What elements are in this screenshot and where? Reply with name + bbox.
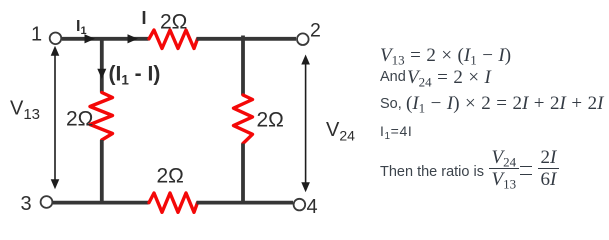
current arrow I1 — [85, 34, 96, 43]
V24 measurement arrow — [301, 55, 310, 193]
resistor R4 2ohm bottom — [149, 193, 198, 212]
equation line 2: And V24 = 2 x I — [380, 69, 406, 86]
wire right branch lower — [241, 144, 245, 203]
terminal 2 — [297, 33, 309, 45]
svg-text:3: 3 — [21, 193, 32, 215]
svg-text:V13: V13 — [10, 98, 40, 124]
svg-text:(I1 - I): (I1 - I) — [109, 63, 161, 88]
terminal 4 — [294, 199, 306, 211]
wire bottom-right — [197, 201, 294, 205]
equation line 3: So, (I1 - I) x 2 = 2I + 2I + 2I — [380, 96, 402, 113]
circuit schematic — [0, 0, 370, 230]
resistor R1 2ohm top — [149, 30, 198, 49]
resistor R3 2ohm right — [234, 95, 253, 144]
ratio fraction V24/V13 — [489, 148, 519, 190]
equation line 4: I1=4I — [380, 123, 412, 140]
svg-text:1: 1 — [31, 24, 42, 46]
svg-text:2Ω: 2Ω — [257, 109, 284, 132]
terminal 1 — [50, 33, 62, 45]
svg-text:I1: I1 — [76, 18, 87, 37]
equation line 1: V13 = 2 x (I1 - I) — [380, 45, 511, 66]
svg-text:V24: V24 — [326, 119, 355, 144]
terminal 3 — [41, 196, 53, 208]
wire top-left (node1 to R1) — [62, 37, 149, 41]
wire bottom-left — [53, 201, 149, 205]
svg-text:2Ω: 2Ω — [157, 165, 184, 188]
resistor R2 2ohm left — [90, 93, 113, 141]
svg-text:2Ω: 2Ω — [66, 108, 93, 131]
current arrow (I1-I) down — [97, 69, 106, 79]
svg-text:2Ω: 2Ω — [160, 11, 187, 34]
equals sign — [520, 166, 533, 174]
current arrow I — [128, 34, 139, 43]
wire left branch upper — [100, 37, 104, 93]
wire top-right (R1 to node2) — [197, 37, 297, 41]
ratio fraction 2I/6I — [538, 148, 559, 190]
svg-text:4: 4 — [307, 196, 318, 218]
wire right branch upper — [241, 36, 245, 96]
equation line 5: Then the ratio is V24/V13 = 2I/6I — [380, 164, 484, 181]
wire left branch lower — [100, 140, 104, 203]
V13 measurement arrow — [51, 46, 60, 190]
svg-text:2: 2 — [310, 20, 321, 42]
svg-text:I: I — [142, 8, 147, 28]
